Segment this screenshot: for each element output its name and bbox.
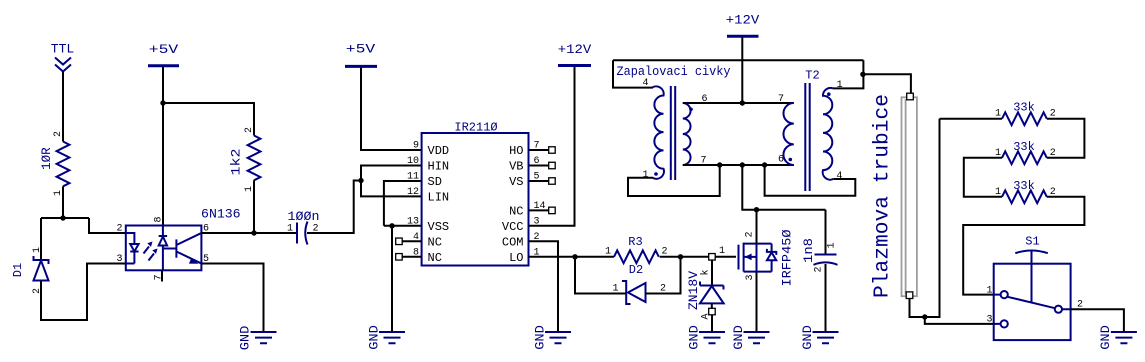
diode D2 [622, 263, 646, 304]
wire 33k mid to 33k bottom [964, 158, 1002, 197]
resistor 33k bottom [1002, 179, 1047, 203]
wire rail to transformer primary pin 4 [613, 60, 653, 87]
ground under ZN18V [686, 325, 725, 350]
wire S1 pin 2 to ground [1071, 309, 1124, 332]
svg-text:NC: NC [428, 251, 442, 265]
svg-text:12: 12 [407, 187, 419, 198]
plasma tube Plazmova trubice [872, 94, 917, 298]
junction dot T1 pin1 branch [717, 162, 722, 167]
port square VB [549, 162, 556, 169]
wire primary bottom line pin7 to T2 pin6 [683, 164, 794, 166]
capacitor C 1n8 [801, 238, 838, 265]
wire tube bottom to 33k chain [910, 119, 940, 317]
port square on gate wire [709, 254, 716, 260]
port square pin 4 [396, 238, 403, 245]
wire drain row to 1n8 [825, 210, 827, 254]
wire +5V to opto pin 8 [162, 67, 164, 226]
svg-text:2: 2 [53, 131, 64, 137]
port square pin 8 [396, 254, 403, 260]
wire drain node row [742, 165, 825, 210]
svg-text:1: 1 [995, 187, 1001, 198]
transformer T2 core [805, 83, 809, 191]
wire T2 pin 4 loop [765, 165, 856, 196]
svg-text:1: 1 [287, 224, 293, 235]
wire 1k2 to pin6 node [253, 180, 255, 233]
wire HV to plasma tube top [863, 74, 911, 93]
wire junction to S1 pin 3 [925, 317, 994, 324]
resistor 33k mid [1002, 140, 1047, 164]
wire 1n8 to ground [825, 264, 827, 332]
wire VB stub [529, 165, 549, 167]
junction dot HIN/LIN [358, 178, 363, 183]
wire TTL to R 10R [62, 72, 64, 142]
port square NC14 [549, 207, 556, 214]
ground under IR2110 [366, 325, 405, 350]
svg-text:1: 1 [719, 246, 725, 257]
svg-text:D2: D2 [629, 263, 643, 277]
wire MOSFET source to ground [756, 272, 758, 332]
svg-text:GND: GND [800, 325, 815, 350]
svg-text:6: 6 [778, 155, 784, 166]
svg-text:1: 1 [605, 247, 611, 258]
svg-text:1ØR: 1ØR [39, 147, 54, 170]
transformer T2 right winding [823, 88, 834, 180]
wire opto pin 7 stub [161, 270, 163, 281]
svg-text:1: 1 [995, 109, 1001, 120]
wire LO pin 1 to R3 [529, 256, 615, 258]
svg-text:GND: GND [237, 326, 252, 351]
resistor 10R [39, 142, 69, 187]
wire 100n to HIN/LIN node [307, 181, 361, 234]
svg-text:3: 3 [986, 315, 992, 326]
diode D1 zener [11, 256, 49, 281]
svg-text:IRFP45Ø: IRFP45Ø [779, 229, 794, 286]
svg-text:VB: VB [509, 160, 523, 174]
wire HO stub [529, 149, 549, 151]
wire 33k bottom to S1 pin 1 [963, 197, 1084, 295]
power +5V (second) [345, 42, 377, 67]
svg-text:+12V: +12V [558, 42, 592, 57]
junction dot on +5V line [160, 100, 165, 105]
svg-text:GND: GND [731, 325, 746, 350]
junction dot drain [754, 207, 759, 212]
wire NC14 stub [529, 209, 549, 211]
polarity dot T2 pin 1 [827, 92, 831, 96]
light arrows inside 6N136 [144, 242, 158, 261]
port square tube bottom [906, 292, 913, 299]
svg-text:VDD: VDD [428, 144, 450, 158]
node TTL input label [51, 42, 75, 72]
port square tube top [907, 93, 914, 100]
svg-text:1: 1 [986, 286, 992, 297]
svg-text:+12V: +12V [726, 13, 760, 28]
svg-text:GND: GND [532, 325, 547, 350]
svg-text:7: 7 [778, 94, 784, 105]
power +5V (left) [148, 42, 179, 66]
transformer T2 left winding [783, 103, 793, 165]
wire R3 to MOSFET gate [660, 256, 736, 258]
svg-text:VCC: VCC [502, 220, 524, 234]
svg-text:1ØØn: 1ØØn [288, 209, 320, 224]
svg-text:VSS: VSS [428, 220, 450, 234]
svg-text:GND: GND [686, 325, 701, 350]
wire VS stub [529, 180, 549, 182]
svg-text:2: 2 [1050, 148, 1056, 159]
wire +5V to VDD pin 9 [361, 68, 422, 151]
wire to LIN pin 12 [361, 181, 422, 197]
svg-text:TTL: TTL [51, 42, 75, 57]
svg-text:3: 3 [116, 254, 122, 265]
svg-text:LO: LO [509, 251, 523, 265]
wire +12V top rail [613, 59, 863, 61]
junction dot 1k2 and opto pin 6 [251, 230, 256, 235]
polarity dot T2 pin 6 [789, 158, 793, 162]
switch S1 body [994, 235, 1071, 341]
svg-text:1: 1 [612, 284, 618, 295]
svg-text:1k2: 1k2 [228, 149, 243, 176]
wire to HIN pin 10 [361, 166, 422, 181]
svg-text:HIN: HIN [428, 160, 450, 174]
svg-text:NC: NC [428, 235, 442, 249]
svg-text:2: 2 [745, 231, 756, 237]
svg-text:11: 11 [407, 172, 419, 183]
ground under MOSFET [731, 325, 770, 350]
wire D1 anode loop to opto pin 3 [41, 264, 126, 321]
wire primary top line pin6 to T2 pin7 [683, 102, 794, 104]
svg-text:1: 1 [827, 242, 838, 248]
port square HO [549, 147, 556, 154]
wire NC pin 8 stub [402, 256, 421, 258]
svg-text:2: 2 [244, 127, 255, 133]
op-amp U1 IC IR2110 body [422, 121, 529, 266]
transistor inside 6N136 [176, 233, 201, 264]
wire to D1 cathode [40, 218, 42, 260]
svg-text:+5V: +5V [346, 42, 376, 57]
svg-text:10: 10 [407, 156, 419, 167]
svg-text:S1: S1 [1025, 235, 1039, 249]
wire SD pin 11 to VSS [384, 181, 422, 226]
svg-text:R3: R3 [628, 235, 642, 249]
wire COM pin 2 to ground [529, 241, 559, 332]
wire VSS pin 13 [384, 225, 422, 227]
op-amp U? optocoupler 6N136 body [126, 207, 241, 271]
wire junction horizontal [41, 217, 89, 219]
junction dot +12V primary line [740, 100, 745, 105]
svg-text:ZN18V: ZN18V [686, 271, 701, 310]
polarity dot T1 pin 1 [654, 172, 658, 176]
svg-text:1: 1 [32, 247, 43, 253]
svg-text:1: 1 [642, 170, 648, 181]
svg-text:D1: D1 [11, 263, 25, 277]
svg-text:1n8: 1n8 [801, 238, 816, 263]
wire ZN18V to ground [711, 315, 713, 332]
svg-text:9: 9 [413, 141, 419, 152]
wire MOSFET drain [756, 210, 758, 244]
ground under opto [237, 326, 276, 351]
svg-text:4: 4 [642, 78, 648, 89]
junction dot drain branch [740, 162, 745, 167]
wire T1 pin 1 loop [628, 165, 720, 196]
wire ZN18V anode [711, 303, 713, 308]
junction dot T2 pin4 branch [762, 162, 767, 167]
transistor Q1 MOSFET IRFP450 [739, 229, 795, 286]
wire VCC pin 3 to +12V [529, 67, 575, 226]
port square ZN18V anode [709, 308, 716, 315]
ground under S1 [1098, 325, 1137, 350]
wire ZN18V cathode [711, 260, 713, 285]
capacitor C 100n [288, 209, 320, 245]
junction dot LO node [572, 254, 577, 259]
svg-text:SD: SD [428, 175, 442, 189]
wire T2 pin 1 to rail [833, 60, 863, 88]
svg-text:GND: GND [1098, 325, 1113, 350]
power +12V (transformer) [726, 13, 760, 37]
wire +12V down to primary top line [741, 37, 743, 103]
wire junction to opto pin 2 [89, 218, 126, 233]
svg-text:Plazmova trubice: Plazmova trubice [872, 94, 895, 298]
svg-text:VS: VS [509, 175, 523, 189]
junction dot HV tap [860, 72, 865, 77]
wire LO node down to D2 cathode [575, 257, 626, 294]
transformer T1 right winding [683, 103, 691, 165]
svg-text:NC: NC [509, 204, 523, 218]
svg-text:k: k [700, 269, 712, 275]
svg-text:8: 8 [154, 216, 165, 222]
resistor 1k2 [228, 136, 260, 181]
wire VSS to ground [391, 226, 393, 332]
wire +5V junction to 1k2 [163, 103, 254, 136]
zener diode ZN18V [686, 271, 724, 310]
svg-text:3: 3 [745, 274, 756, 280]
transformer T1 left winding [652, 86, 664, 179]
resistor 33k top [1002, 101, 1047, 125]
wire opto pin 6 to cap 100n [201, 232, 297, 234]
svg-text:2: 2 [116, 224, 122, 235]
svg-text:+5V: +5V [149, 42, 179, 57]
LED inside 6N136 [126, 233, 139, 264]
port square VS [549, 178, 556, 185]
wire D2 anode up to gate line [646, 257, 681, 294]
resistor R3 [614, 235, 659, 263]
svg-text:33k: 33k [1013, 140, 1035, 154]
photodiode inside 6N136 [159, 226, 177, 271]
junction dot tube bottom [922, 314, 927, 319]
svg-text:GND: GND [366, 325, 381, 350]
svg-text:HO: HO [509, 144, 523, 158]
svg-text:Zapalovaci civky: Zapalovaci civky [617, 64, 731, 79]
svg-text:6N136: 6N136 [201, 207, 241, 222]
svg-text:33k: 33k [1013, 179, 1035, 193]
svg-text:13: 13 [407, 216, 419, 227]
wire 33k top to 33k mid [1047, 119, 1085, 158]
junction dot gate node [678, 254, 683, 259]
ground under 1n8 [800, 325, 839, 350]
svg-text:COM: COM [502, 235, 524, 249]
polarity dot T1 pin 6 [689, 108, 693, 112]
wire chain to 33k top [940, 118, 1003, 120]
svg-text:4: 4 [836, 171, 842, 182]
wire opto pin 5 to ground [201, 264, 263, 333]
junction dot VSS ground branch [389, 223, 394, 228]
junction dot below 10R [60, 215, 65, 220]
power +12V (over VCC) [558, 42, 592, 66]
svg-text:IR211Ø: IR211Ø [454, 121, 497, 135]
svg-text:T2: T2 [805, 69, 819, 83]
svg-text:LIN: LIN [428, 190, 450, 204]
wire NC pin 4 stub [402, 240, 421, 242]
transformer T1 core [671, 86, 675, 180]
wire 10R to junction [62, 186, 64, 218]
svg-text:33k: 33k [1013, 101, 1035, 115]
ground under COM [532, 325, 571, 350]
svg-text:2: 2 [814, 266, 825, 272]
